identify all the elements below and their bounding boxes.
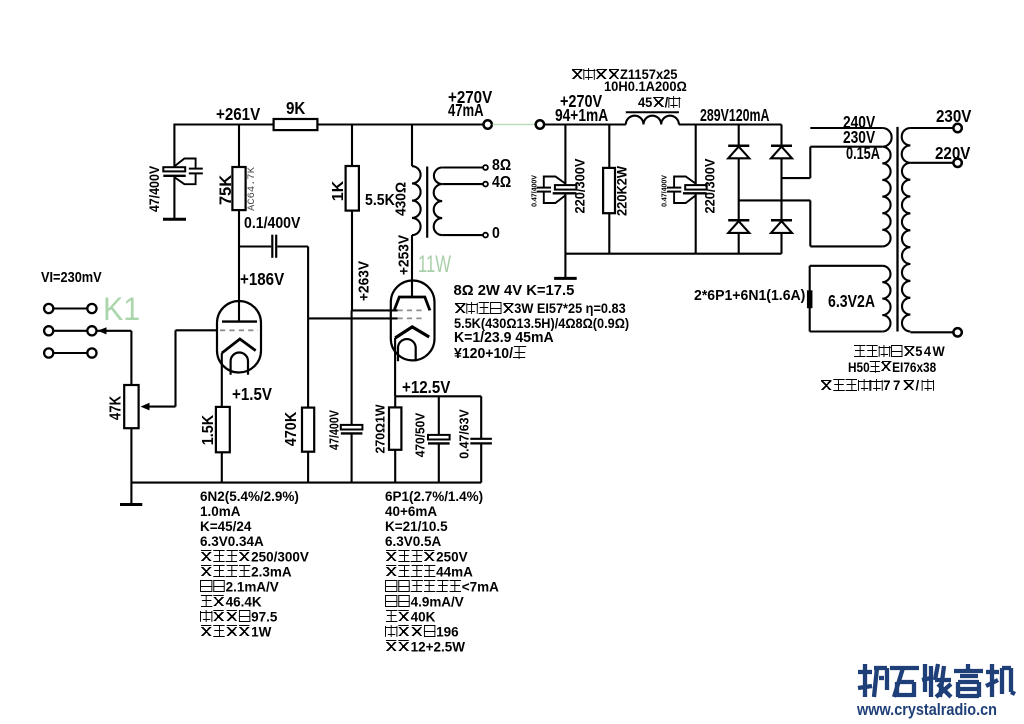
label: V2 spec line 10 [385, 625, 459, 640]
node: secondary 230V terminal [953, 124, 961, 132]
wire: AC input right (230V tap) [782, 177, 811, 179]
node: PSU input terminal [536, 120, 544, 128]
diode D3 (lower left) [728, 219, 749, 222]
label: switch designator K1 (green) [103, 293, 140, 325]
wire: V1 grid to pot wiper [176, 329, 218, 331]
label: PSU voltage +270V [560, 93, 602, 110]
V2 control grid g1 (dashed) [398, 317, 425, 319]
label: watermark url [857, 701, 997, 718]
label: T2 current 0.15A [846, 145, 880, 162]
V2 screen grid g2 (dashed) [398, 309, 425, 311]
diode D2 (upper right) [771, 144, 792, 147]
watermark logo (stylized) [858, 664, 1015, 697]
label: T1 primary impedance 5.5K [365, 193, 395, 209]
label: V1 spec line 3 [200, 520, 251, 534]
wire: secondary 220V tap [910, 162, 953, 164]
label: C7 value 470/50V [415, 412, 428, 457]
wire: pot to ground bus [130, 428, 132, 482]
label: V2 spec line 11 [385, 640, 465, 655]
label: C6 film value 0.47/400V [660, 175, 667, 207]
switch K1 pole 2 [44, 326, 53, 335]
label: V2 spec line 3 [385, 520, 448, 534]
node: secondary 220V terminal [953, 159, 961, 167]
label: C5 film value 0.47/400V [530, 175, 537, 207]
transformer T2 240V tap [810, 127, 882, 129]
wire: V1 cathode to R4 [221, 353, 223, 407]
label: R1 value 9K [286, 100, 305, 117]
wire: PSU top rail [544, 123, 626, 125]
transformer T2 primary winding [882, 128, 891, 246]
wire: K1 pole2 to pot [97, 330, 131, 332]
label: R7 value 220K2W [616, 166, 630, 216]
label: V2 spec line 8 [385, 595, 464, 610]
ground symbol PSU [564, 254, 566, 279]
transformer T2 0 tap [810, 245, 882, 247]
label: output note line5 [454, 346, 526, 362]
V2 anode plate [394, 297, 430, 310]
label: R6 value 270ohm1W [374, 404, 387, 453]
label: R2 value 75K [218, 175, 235, 205]
label: node voltage +12.5V [402, 379, 450, 396]
V1 heater [231, 353, 248, 375]
capacitor C5 220/300V + 0.47/400V (first filter) [537, 125, 577, 254]
resistor R4 1.5K (V1 cathode) [216, 407, 230, 452]
label: choke brand [571, 68, 678, 82]
label: V1 spec line 1 [200, 490, 299, 504]
transformer T1 primary winding 5.5K 430ohm [412, 166, 421, 235]
wire: ground bus [131, 482, 481, 484]
capacitor C1 47/400V input filter (electrolytic + film) [163, 124, 203, 220]
label: node voltage +253V [396, 235, 411, 275]
transformer T1 core [426, 167, 428, 238]
transformer T2 core [896, 127, 898, 332]
label: R5 value 470K [284, 412, 300, 446]
wire: R4 to ground bus [221, 452, 223, 482]
wire: secondary 230V tap [910, 127, 953, 129]
tube V1 6N2 envelope [217, 301, 261, 373]
label: rectifier output 289V120mA [700, 107, 769, 124]
label: node voltage +263V [357, 261, 372, 301]
label: T2 heater 6.3V2A [828, 293, 875, 310]
label: C1 value 47/400V [148, 166, 162, 212]
label: tap label 8 ohm [492, 158, 511, 174]
wire: 6N2 anode to coupling cap [239, 245, 271, 247]
node: 0 terminal [483, 233, 488, 238]
label: choke price [638, 96, 680, 110]
wire: 4 ohm tap [442, 183, 483, 185]
wire: B+ rail +261V [174, 123, 273, 125]
V1 cathode [222, 339, 256, 353]
label: secondary 230V [936, 108, 971, 125]
potentiometer RP1 47K [124, 385, 138, 428]
wire: AC input left (0 tap) [739, 199, 811, 201]
label: V1 spec line 9 [200, 610, 277, 625]
V2 cathode [395, 327, 429, 338]
label: output note line4 [454, 331, 554, 346]
switch K1 pole 1 [44, 304, 53, 313]
label: V2 spec line 4 [385, 535, 441, 549]
label: C4 value 47/400V [328, 410, 341, 450]
node: 4 ohm terminal [483, 182, 488, 187]
V2 heater [398, 339, 416, 361]
label: V2 spec line 7 [385, 580, 499, 595]
label: V1 spec line 7 [200, 580, 279, 595]
label: C5 value 220/300V [573, 158, 587, 213]
label: output note line3 [454, 317, 629, 330]
V1 wiper arrowhead [141, 403, 150, 411]
label: T2 note price [820, 378, 934, 392]
diode D1 (upper left) [728, 144, 749, 147]
label: secondary 220V [935, 145, 970, 162]
transformer T1 secondary winding [434, 168, 442, 236]
label: R3 value 1K [331, 181, 347, 201]
ground symbol below C1 [163, 218, 186, 221]
T2 heater winding junction bar [807, 290, 813, 308]
ground symbol at pot [130, 483, 132, 505]
wire: 8 ohm tap [442, 166, 483, 168]
label: C2 value 0.1/400V [244, 216, 300, 232]
label: node voltage +186V [240, 271, 284, 288]
inductor L1 choke 10H [626, 116, 679, 125]
wire: T1 primary to 6P1 anode [411, 235, 413, 297]
resistor R6 270ohm1W (V2 cathode) [394, 396, 396, 407]
label: T2 core spec [848, 361, 936, 375]
label: V1 spec line 2 [200, 505, 240, 519]
label: V1 spec line 4 [200, 535, 264, 549]
label: heater note 2*6P1+6N1(1.6A) [694, 289, 805, 304]
switch K1 pole 3 [44, 348, 53, 357]
capacitor C7 470/50V (cathode bypass) [438, 396, 440, 435]
label: node voltage +1.5V [232, 386, 272, 403]
capacitor C4 47/400V screen bypass [341, 310, 363, 482]
resistor R1 9K (decoupling) [274, 119, 318, 130]
label: V2 spec line 2 [385, 505, 437, 519]
label: V2 spec line 9 [385, 610, 435, 625]
label: T2 tap 230V [843, 129, 875, 146]
label: tap label 4 ohm [492, 175, 511, 191]
label: terminal voltage +270V [448, 89, 492, 106]
resistor R3 1K (screen dropper) [346, 125, 359, 311]
node: 8 ohm terminal [483, 165, 488, 170]
label: output note line1 [454, 284, 575, 299]
wire: green link between amp and PSU [493, 124, 536, 126]
wire: 0 tap [442, 234, 483, 236]
label: dissipation 11W (green) [418, 253, 451, 278]
label: T2 brand [854, 345, 946, 359]
diode D4 (lower right) [771, 219, 792, 222]
wire: +12.5V cathode bus [395, 395, 481, 397]
tube V2 6P1 envelope [391, 281, 435, 361]
wire: bridge left branch [738, 125, 740, 254]
label: V2 spec line 6 [385, 565, 473, 580]
label: output note line2 [454, 302, 626, 315]
label: R4 value 1.5K [201, 414, 217, 444]
label: terminal current 47mA [448, 102, 484, 119]
label: tap label 0 [492, 226, 500, 242]
transformer T2 HV secondary winding [902, 128, 911, 332]
label: V2 spec line 5 [385, 550, 468, 565]
L1 core line [626, 111, 679, 113]
node: B+ output terminal [484, 120, 492, 128]
resistor R5 470K (V2 grid leak) [307, 318, 309, 407]
wire: bridge right branch [780, 125, 782, 254]
wire: screen grid g2 feed [352, 309, 398, 311]
label: V1 spec line 10 [200, 625, 271, 640]
wire: secondary 0 tap [910, 331, 953, 333]
capacitor C8 0.47/63V (cathode bypass) [480, 396, 482, 439]
transformer T2 heater winding 6.3V [810, 265, 883, 267]
label: T2 tap 240V [843, 114, 875, 131]
label: choke spec [604, 80, 687, 94]
label: V1 spec line 6 [200, 565, 292, 580]
wire: coupling cap to 6P1 grid g1 [277, 245, 308, 247]
label: V1 spec line 8 [200, 595, 262, 610]
V1 anode plate [222, 320, 257, 322]
label: PSU current 94+1mA [555, 107, 608, 124]
label: V2 spec line 1 [385, 490, 483, 504]
K1 arrowhead [98, 327, 107, 334]
label: V1 spec line 5 [200, 550, 309, 565]
transformer T2 230V tap [810, 146, 882, 148]
label: C6 value 220/300V [703, 158, 717, 213]
label: RP1 value 47K [109, 396, 125, 420]
capacitor C6 220/300V + 0.47/400V (second filter) [667, 125, 707, 254]
capacitor C2 0.1/400V coupling [271, 235, 273, 258]
label: C8 value 0.47/63V [458, 409, 471, 458]
label: input level VI=230mV [41, 271, 102, 286]
resistor R2 75K (6N2 anode load) [232, 125, 245, 247]
transformer T1 primary lead [411, 125, 413, 167]
label: T1 primary resistance 430 ohm [394, 181, 409, 215]
label: R2 alt value AC64.7K [247, 167, 257, 211]
V1 grid (dashed) [220, 329, 258, 331]
resistor R7 220K2W (bleeder) [608, 125, 610, 168]
wire: V2 cathode to +12.5V bus [394, 338, 396, 396]
label: node voltage +261V [216, 106, 260, 123]
node: secondary 0 terminal [953, 328, 961, 336]
V1 anode lead [238, 247, 240, 322]
wire: PSU bottom bus [565, 253, 781, 255]
